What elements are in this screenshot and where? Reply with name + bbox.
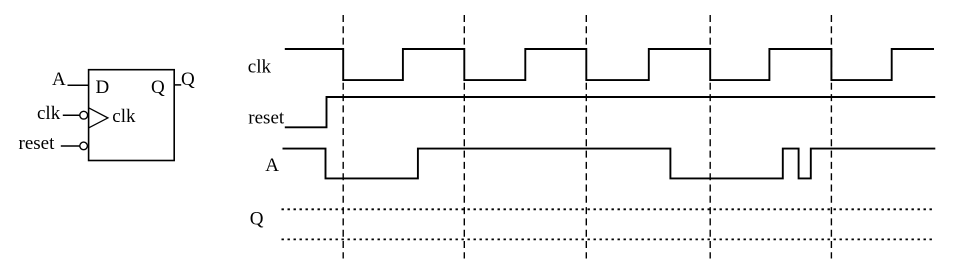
svg-text:clk: clk [112, 106, 136, 127]
svg-text:reset: reset [248, 108, 285, 129]
svg-text:clk: clk [248, 57, 272, 78]
svg-text:D: D [96, 77, 110, 98]
svg-text:Q: Q [250, 208, 264, 229]
svg-text:clk: clk [37, 103, 61, 124]
svg-text:Q: Q [181, 69, 195, 90]
svg-text:A: A [52, 69, 66, 90]
svg-text:A: A [265, 155, 279, 176]
svg-text:reset: reset [19, 133, 56, 154]
svg-text:Q: Q [151, 77, 165, 98]
